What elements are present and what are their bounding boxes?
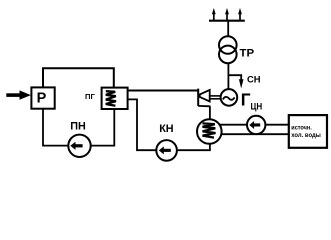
- condensate feedwater line (condenser to KN pump to PG): [127, 99, 210, 150]
- CN pump flow arrow: [249, 121, 260, 129]
- shaft turbine-generator: [210, 96, 221, 99]
- svg-text:ЦН: ЦН: [251, 101, 263, 111]
- svg-text:источн.: источн.: [291, 125, 312, 132]
- wire primary cold leg (steam generator bottom to reactor bottom): [43, 108, 114, 146]
- svg-text:ПГ: ПГ: [85, 92, 95, 101]
- svg-text:ТР: ТР: [240, 47, 255, 59]
- auxiliary power arrow SN: [239, 79, 244, 88]
- cooling water line condenser to CN pump: [220, 124, 247, 126]
- svg-text:хол. воды: хол. воды: [291, 132, 321, 139]
- condenser K: [197, 119, 222, 144]
- cold water source box: [289, 115, 327, 148]
- busbar: [209, 20, 245, 22]
- cooling water line CN pump to source: [265, 124, 289, 126]
- PN pump flow arrow: [70, 142, 82, 150]
- grid output arrow 3: [238, 8, 242, 21]
- auxiliary power tap wire: [228, 75, 241, 80]
- svg-text:СН: СН: [247, 73, 261, 84]
- turbine T: [198, 89, 210, 107]
- turbine exhaust to condenser: [209, 106, 211, 120]
- steam line PG to turbine: [127, 90, 199, 92]
- condensate pump KN: [156, 140, 177, 161]
- cooling water return line: [221, 133, 289, 135]
- generator G: [221, 89, 238, 106]
- reactor R box: [31, 87, 54, 108]
- svg-text:ПН: ПН: [70, 121, 86, 133]
- steam generator PG box: [102, 88, 128, 109]
- wire generator to transformer: [227, 63, 229, 89]
- circulation pump CN: [247, 116, 265, 134]
- PG heating coil zigzag: [106, 91, 116, 106]
- transformer TR: [219, 36, 237, 63]
- grid output arrow 1: [212, 8, 216, 21]
- wire primary hot leg (reactor top to steam generator top): [43, 68, 114, 88]
- heat input arrow into reactor: [6, 90, 31, 99]
- condenser coil zigzag: [203, 123, 216, 137]
- svg-text:КН: КН: [159, 123, 174, 135]
- generator sine mark: [223, 97, 235, 100]
- svg-text:Г: Г: [241, 90, 251, 110]
- wire transformer to busbar: [227, 20, 229, 36]
- KN pump flow arrow: [159, 146, 171, 154]
- grid output arrow 2: [225, 8, 229, 21]
- svg-text:Р: Р: [37, 90, 47, 106]
- feed pump PN: [68, 135, 90, 157]
